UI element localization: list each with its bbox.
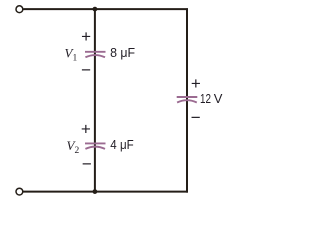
svg-text:−: − xyxy=(81,61,91,80)
terminal top-left xyxy=(16,6,23,13)
capacitor 12V source (plates) xyxy=(177,97,198,103)
junction node top xyxy=(93,7,98,12)
svg-text:4 μF: 4 μF xyxy=(110,137,133,152)
svg-text:+: + xyxy=(81,120,91,139)
wire bottom (right branch to node) xyxy=(95,191,188,193)
svg-text:−: − xyxy=(82,155,92,174)
wire top (node to right branch) xyxy=(95,8,188,10)
svg-text:12: 12 xyxy=(200,91,211,106)
wire bottom (node to terminal) xyxy=(23,191,95,193)
wire middle branch xyxy=(94,9,96,192)
junction node bottom xyxy=(93,189,98,194)
svg-text:+: + xyxy=(191,74,201,93)
capacitor C2 4uF (plates) xyxy=(85,143,106,149)
wire top (terminal to node) xyxy=(23,8,95,10)
terminal bottom-left xyxy=(16,188,23,195)
svg-text:V: V xyxy=(214,91,223,106)
svg-text:8 μF: 8 μF xyxy=(110,45,135,60)
wire right branch xyxy=(186,8,188,192)
svg-text:−: − xyxy=(191,108,201,127)
capacitor C1 8uF (plates) xyxy=(85,52,106,58)
svg-text:+: + xyxy=(81,27,91,46)
